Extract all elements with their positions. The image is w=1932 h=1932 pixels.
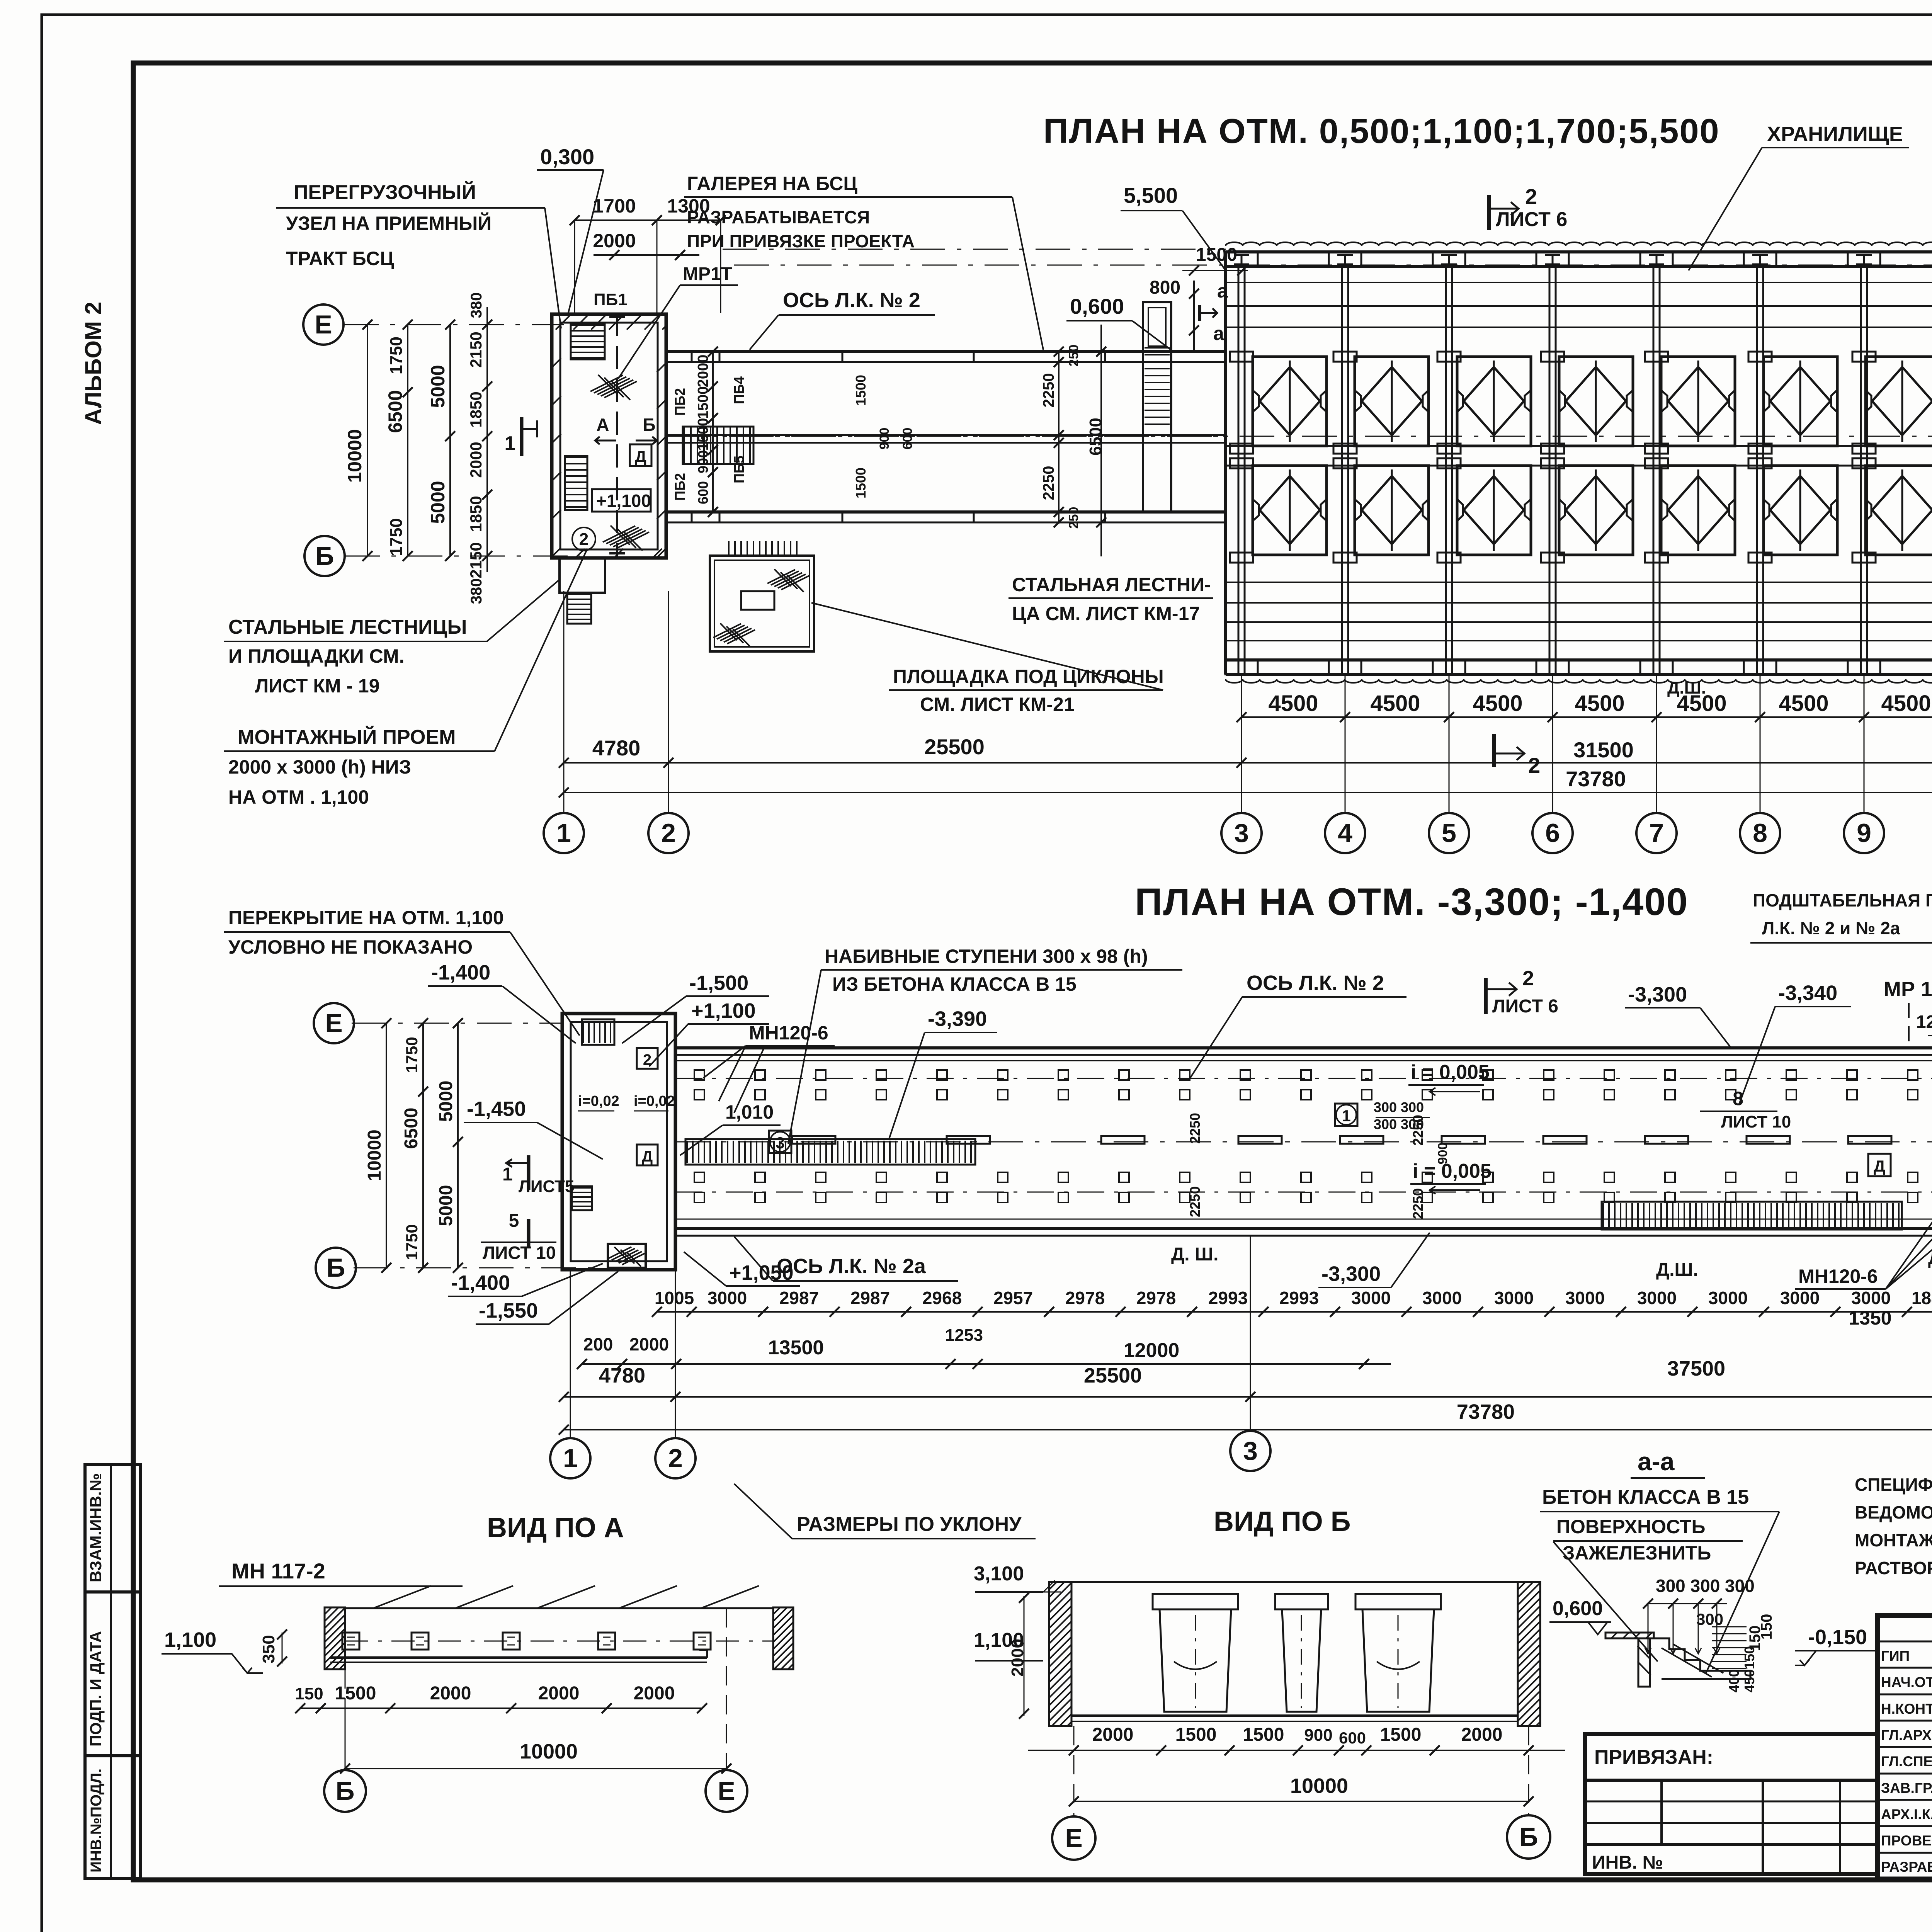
lower plan bubbles bottom [570, 1268, 571, 1437]
storage bay cell r1c7 with hopper [1866, 357, 1932, 446]
svg-text:а: а [1217, 280, 1228, 302]
svg-text:7: 7 [1649, 818, 1664, 848]
bay number box 1 [1335, 1104, 1357, 1126]
column 8 mid squares [1748, 444, 1772, 454]
column axis 7 vertical [1653, 267, 1655, 674]
gallery stair strip left [685, 1139, 975, 1165]
svg-text:-1,400: -1,400 [451, 1271, 510, 1294]
svg-text:0,300: 0,300 [540, 145, 594, 169]
svg-text:800: 800 [1150, 277, 1180, 298]
svg-text:ПЕРЕГРУЗОЧНЫЙ: ПЕРЕГРУЗОЧНЫЙ [294, 181, 476, 204]
transfer block label D box [630, 444, 651, 466]
gallery center axis [675, 1141, 1932, 1143]
svg-text:НАБИВНЫЕ СТУПЕНИ 300 х 98 (h: НАБИВНЫЕ СТУПЕНИ 300 х 98 (h) [825, 946, 1148, 967]
lower-plan left block stair [582, 1019, 614, 1045]
svg-text:а-а: а-а [1638, 1447, 1675, 1476]
svg-text:РАЗРАБАТЫВАЕТСЯ: РАЗРАБАТЫВАЕТСЯ [687, 207, 870, 227]
storage hall top wall column plates [1225, 252, 1258, 267]
svg-text:3,100: 3,100 [974, 1563, 1024, 1585]
column axis 5 vertical [1445, 267, 1447, 674]
svg-text:2957: 2957 [993, 1288, 1033, 1308]
svg-text:Д: Д [642, 1148, 653, 1165]
svg-text:-1,400: -1,400 [431, 961, 490, 984]
view A left wall [325, 1607, 345, 1669]
svg-text:СТАЛЬНАЯ ЛЕСТНИ-: СТАЛЬНАЯ ЛЕСТНИ- [1012, 574, 1211, 595]
column 3 mid squares [1230, 444, 1253, 454]
view B bubbles [1073, 1726, 1075, 1816]
left vertical dim chain lines [367, 325, 368, 556]
svg-text:ХРАНИЛИЩЕ: ХРАНИЛИЩЕ [1767, 122, 1903, 146]
grid bubbles extension lines [563, 591, 565, 813]
svg-text:5,500: 5,500 [1124, 183, 1178, 207]
axis row Б line [345, 556, 580, 557]
svg-text:-3,300: -3,300 [1321, 1262, 1381, 1286]
lower dim row 3000 series [657, 1311, 1932, 1313]
section a-a small dims [1712, 1626, 1747, 1628]
svg-text:2993: 2993 [1279, 1288, 1319, 1308]
svg-text:2000: 2000 [538, 1683, 580, 1704]
svg-text:350: 350 [259, 1635, 278, 1663]
grid bubble 7 [1636, 813, 1677, 853]
bay number box 3 left [769, 1131, 791, 1153]
gallery upper column squares row A [694, 1070, 704, 1080]
svg-text:НА ОТМ . 1,100: НА ОТМ . 1,100 [228, 786, 369, 808]
svg-text:i = 0,005: i = 0,005 [1413, 1160, 1492, 1182]
transfer block hatch marks [590, 375, 623, 391]
svg-text:А: А [596, 415, 609, 435]
svg-text:5000: 5000 [436, 1185, 456, 1226]
storage bay cell r2c4 with hopper [1559, 466, 1633, 555]
svg-text:ПБ4: ПБ4 [731, 376, 747, 404]
svg-text:400: 400 [1726, 1669, 1742, 1692]
transfer block MR1T axis [616, 313, 618, 556]
row bubble Е top-plan [303, 304, 344, 345]
svg-text:Б: Б [336, 1776, 355, 1806]
view B hoppers [1153, 1594, 1238, 1609]
title block left rows [1878, 1641, 1932, 1643]
svg-text:2000: 2000 [634, 1683, 675, 1704]
storage bay cell r1c6 with hopper [1764, 357, 1837, 446]
svg-text:2150: 2150 [467, 332, 485, 367]
svg-text:ЛИСТ 6: ЛИСТ 6 [1492, 996, 1558, 1017]
svg-text:2250: 2250 [1040, 373, 1057, 408]
column axis 8 vertical [1756, 267, 1758, 674]
svg-text:2987: 2987 [779, 1288, 819, 1308]
svg-text:Л.К. № 2 и № 2а: Л.К. № 2 и № 2а [1762, 918, 1900, 938]
gallery lower column squares [694, 1172, 704, 1182]
axis row Ж dash-dot line [734, 265, 1932, 266]
svg-text:i=0,02: i=0,02 [578, 1093, 619, 1109]
label list5 mark [527, 1155, 531, 1190]
title block outer [1878, 1616, 1932, 1879]
svg-text:СТАЛЬНЫЕ ЛЕСТНИЦЫ: СТАЛЬНЫЕ ЛЕСТНИЦЫ [228, 616, 467, 638]
svg-text:31500: 31500 [1573, 738, 1634, 762]
svg-text:Б: Б [327, 1253, 345, 1282]
svg-text:ПЕРЕКРЫТИЕ НА ОТМ. 1,100: ПЕРЕКРЫТИЕ НА ОТМ. 1,100 [228, 907, 504, 929]
storage bay cell r2c3 with hopper [1457, 466, 1531, 555]
corridor width dim chain [712, 352, 714, 512]
stamp box VZAM.INV.N [85, 1464, 141, 1592]
svg-text:380: 380 [468, 578, 485, 604]
axis row Г line [676, 436, 1932, 437]
view A bubbles [345, 1708, 346, 1770]
corridor мid columns ticks [691, 352, 693, 362]
svg-text:25500: 25500 [1084, 1364, 1142, 1387]
view A dim 10000 [345, 1768, 726, 1769]
storage hall left wall [1224, 252, 1227, 674]
lower-plan left block outer [562, 1014, 675, 1270]
gallery bottom wall [675, 1227, 1932, 1230]
transfer block stairs top [571, 324, 605, 359]
lower dim row 73780 [564, 1429, 1932, 1430]
svg-text:2: 2 [668, 1444, 683, 1473]
svg-text:6: 6 [1545, 818, 1560, 848]
svg-text:0,600: 0,600 [1553, 1597, 1603, 1620]
transfer block wall hatch [556, 315, 570, 330]
svg-text:Б: Б [315, 541, 334, 571]
axis row Б lower line [354, 1267, 603, 1269]
svg-text:ВИД ПО А: ВИД ПО А [487, 1512, 624, 1543]
corridor top wall [666, 350, 1226, 353]
gallery inner lines top [675, 1060, 1932, 1061]
transfer block annex stair [567, 593, 591, 624]
svg-text:-3,390: -3,390 [928, 1007, 987, 1031]
svg-text:Д.Ш.: Д.Ш. [1656, 1260, 1698, 1280]
svg-text:+1,100: +1,100 [691, 999, 756, 1022]
storage hall top wall [1226, 250, 1932, 253]
svg-text:25500: 25500 [924, 735, 985, 759]
svg-text:И ПЛОЩАДКИ СМ.: И ПЛОЩАДКИ СМ. [228, 645, 405, 667]
storage bay cell r2c1 with hopper [1253, 466, 1327, 555]
svg-text:600: 600 [1339, 1729, 1366, 1747]
svg-text:3000: 3000 [707, 1288, 747, 1308]
section a-a callout triangle [1706, 1512, 1779, 1673]
column axis 9 vertical [1860, 267, 1862, 674]
svg-text:5: 5 [509, 1211, 519, 1231]
svg-text:2250: 2250 [1410, 1115, 1426, 1146]
svg-text:ВЗАМ.ИНВ.№: ВЗАМ.ИНВ.№ [87, 1473, 105, 1582]
svg-text:Д.Ш: Д.Ш [1928, 1248, 1932, 1268]
svg-text:8: 8 [1753, 818, 1767, 848]
svg-text:Н.КОНТР.: Н.КОНТР. [1881, 1701, 1932, 1717]
column axis 4 vertical [1341, 267, 1343, 674]
svg-text:3000: 3000 [1422, 1288, 1462, 1308]
gallery upper axis [675, 1078, 1932, 1079]
svg-text:ИНВ. №: ИНВ. № [1592, 1852, 1663, 1873]
svg-text:5000: 5000 [436, 1081, 456, 1122]
svg-text:4500: 4500 [1779, 691, 1828, 716]
lower dim row 3: 4780 25500 37500 [564, 1396, 1932, 1398]
svg-text:2000: 2000 [1461, 1725, 1503, 1745]
svg-text:73780: 73780 [1457, 1400, 1515, 1423]
cyclone platform left inner box [741, 591, 774, 610]
svg-text:4500: 4500 [1881, 691, 1931, 716]
svg-text:6500: 6500 [384, 390, 406, 433]
svg-text:4: 4 [1338, 818, 1352, 848]
axis row Е lower line [352, 1023, 562, 1024]
gallery left slots [792, 1136, 835, 1144]
svg-text:0,600: 0,600 [1070, 294, 1124, 318]
svg-text:2000: 2000 [1092, 1725, 1134, 1745]
svg-text:ГЛ.СПЕЦ.: ГЛ.СПЕЦ. [1881, 1753, 1932, 1769]
gallery inner lines bottom [675, 1219, 1932, 1220]
svg-text:10000: 10000 [364, 1129, 385, 1181]
svg-text:5000: 5000 [427, 365, 449, 408]
svg-text:Е: Е [718, 1776, 735, 1806]
corridor axis line [666, 436, 1226, 437]
svg-text:РАЗРАБ.: РАЗРАБ. [1881, 1859, 1932, 1875]
svg-text:2000: 2000 [467, 442, 485, 478]
svg-text:2250: 2250 [1187, 1113, 1203, 1144]
svg-text:-1,450: -1,450 [467, 1097, 526, 1121]
svg-text:1500: 1500 [1196, 245, 1237, 265]
lower-plan left block hatch box [608, 1244, 646, 1268]
svg-text:ПОДШТАБЕЛЬНАЯ ГАЛЕРЕЯ-: ПОДШТАБЕЛЬНАЯ ГАЛЕРЕЯ- [1753, 890, 1932, 910]
svg-text:2: 2 [1528, 753, 1540, 777]
top plan left guide lines [723, 249, 1226, 250]
svg-text:10000: 10000 [520, 1740, 578, 1763]
svg-text:ПЛАН НА ОТМ. -3,300; -1,400: ПЛАН НА ОТМ. -3,300; -1,400 [1135, 880, 1688, 923]
svg-text:3000: 3000 [1780, 1288, 1820, 1308]
grid bubble 1 [544, 813, 584, 853]
svg-text:МОНТАЖНЫЙ ПРОЕМ ЗАЛОЖИТЬ КИРП: МОНТАЖНЫЙ ПРОЕМ ЗАЛОЖИТЬ КИРПИЧОМ МАРКИ … [1855, 1530, 1932, 1550]
svg-text:2968: 2968 [922, 1288, 962, 1308]
section mark 2 list6 lower [1484, 978, 1488, 1014]
svg-text:900: 900 [695, 450, 711, 473]
column 4 mid squares [1333, 444, 1357, 454]
column 9 mid squares [1852, 444, 1876, 454]
svg-text:1750: 1750 [403, 1224, 421, 1260]
svg-text:900: 900 [1304, 1726, 1332, 1745]
svg-text:ГАЛЕРЕЯ НА БСЦ: ГАЛЕРЕЯ НА БСЦ [687, 173, 857, 194]
lower-plan left block boxes [637, 1048, 658, 1069]
svg-text:1500: 1500 [695, 418, 711, 451]
svg-text:3000: 3000 [1637, 1288, 1677, 1308]
svg-text:1: 1 [563, 1444, 578, 1473]
svg-text:-0,150: -0,150 [1808, 1626, 1867, 1649]
corridor inner lines [666, 434, 1226, 436]
storage bay cell r2c6 with hopper [1764, 466, 1837, 555]
svg-text:2000: 2000 [629, 1334, 669, 1354]
svg-text:2250: 2250 [1187, 1186, 1203, 1217]
svg-text:2987: 2987 [850, 1288, 890, 1308]
svg-text:Б: Б [643, 415, 655, 435]
svg-text:125 125: 125 125 [1916, 1012, 1932, 1032]
svg-text:-3,300: -3,300 [1628, 983, 1687, 1006]
svg-text:МР1Т: МР1Т [683, 264, 732, 284]
svg-text:1,100: 1,100 [164, 1628, 216, 1651]
svg-text:3000: 3000 [1351, 1288, 1391, 1308]
cyclone platform left hatches [767, 570, 795, 583]
svg-text:2993: 2993 [1208, 1288, 1248, 1308]
svg-text:5000: 5000 [427, 481, 449, 524]
dimension row 4780 25500 31500 6000 6000 [564, 762, 1932, 764]
svg-text:СМ. ЛИСТ КМ-21: СМ. ЛИСТ КМ-21 [920, 694, 1075, 715]
lower dim row 2: 200 2000 13500 1253 12000 [582, 1363, 1391, 1365]
svg-text:Е: Е [1065, 1823, 1082, 1853]
svg-text:1500: 1500 [853, 375, 869, 406]
svg-text:1,010: 1,010 [725, 1101, 774, 1123]
transfer block outer walls [552, 314, 666, 558]
svg-text:2: 2 [579, 530, 588, 549]
transfer block stairs left [565, 456, 587, 510]
svg-text:1700: 1700 [593, 195, 636, 217]
dim 1700 1300 [575, 219, 721, 221]
svg-text:ПРИВЯЗАН:: ПРИВЯЗАН: [1594, 1746, 1713, 1769]
svg-text:+1,100: +1,100 [596, 491, 651, 511]
storage hall bottom wall column plates [1225, 660, 1258, 674]
svg-text:2150: 2150 [467, 542, 485, 578]
section mark 2 bottom [1492, 734, 1496, 767]
svg-text:12000: 12000 [1124, 1339, 1180, 1362]
stamp box PODP.I.DATA [85, 1592, 141, 1756]
svg-text:1500: 1500 [1380, 1725, 1422, 1745]
svg-text:ЗАЖЕЛЕЗНИТЬ: ЗАЖЕЛЕЗНИТЬ [1563, 1542, 1711, 1564]
svg-text:1500: 1500 [853, 468, 869, 498]
bay letter box D [1868, 1154, 1891, 1176]
svg-text:300: 300 [1696, 1610, 1723, 1628]
svg-text:ИЗ БЕТОНА КЛАССА В 15: ИЗ БЕТОНА КЛАССА В 15 [832, 973, 1077, 995]
svg-text:ГЛ.АРХ.: ГЛ.АРХ. [1881, 1727, 1932, 1743]
svg-text:13500: 13500 [768, 1337, 824, 1359]
svg-text:МР 1Т: МР 1Т [1884, 978, 1932, 1001]
svg-text:2: 2 [1522, 967, 1534, 990]
svg-text:ЛИСТ КМ - 19: ЛИСТ КМ - 19 [255, 675, 380, 697]
svg-text:ЛИСТ5: ЛИСТ5 [519, 1177, 575, 1196]
column axis 3 vertical [1238, 267, 1240, 674]
view A dim row [300, 1708, 702, 1709]
svg-text:ЗАВ.ГР.: ЗАВ.ГР. [1881, 1780, 1932, 1796]
svg-text:4500: 4500 [1575, 691, 1624, 716]
storage hall corrugated bottom edge [1226, 679, 1932, 683]
svg-text:1253: 1253 [945, 1326, 983, 1345]
svg-text:600: 600 [695, 481, 711, 504]
svg-text:i = 0,005: i = 0,005 [1411, 1061, 1490, 1083]
storage hall corrugated top edge [1226, 242, 1932, 246]
svg-text:5: 5 [1442, 818, 1456, 848]
grid bubble 6 [1532, 813, 1573, 853]
corridor bottom wall [666, 510, 1226, 514]
view A roof hatch [373, 1586, 431, 1608]
svg-text:9: 9 [1857, 818, 1871, 848]
svg-text:150: 150 [295, 1684, 323, 1703]
svg-text:3000: 3000 [1708, 1288, 1748, 1308]
dimension row 4500 x7 [1242, 716, 1932, 718]
svg-text:РАСТВОРЕ МАРКИ 10 ПОСЛЕ МОНТА: РАСТВОРЕ МАРКИ 10 ПОСЛЕ МОНТАЖА ОБОРУДОВ… [1855, 1558, 1932, 1578]
svg-text:2: 2 [1525, 184, 1537, 209]
svg-text:УСЛОВНО НЕ ПОКАЗАНО: УСЛОВНО НЕ ПОКАЗАНО [228, 936, 473, 958]
svg-text:3000: 3000 [1851, 1288, 1891, 1308]
svg-text:ОСЬ Л.К. № 2а: ОСЬ Л.К. № 2а [777, 1255, 926, 1278]
svg-text:1500: 1500 [695, 386, 711, 419]
row bubble Б top-plan [304, 536, 345, 576]
svg-text:ВЕДОМОСТИ ПРОЕМОВ ДВЕРЕЙ, ПЕРЕ: ВЕДОМОСТИ ПРОЕМОВ ДВЕРЕЙ, ПЕРЕМЫЧЕК СМ. … [1855, 1502, 1932, 1522]
transfer block node bubble 2 [572, 527, 595, 551]
svg-text:2000: 2000 [430, 1683, 471, 1704]
svg-text:ПОДП. И ДАТА: ПОДП. И ДАТА [87, 1631, 105, 1747]
column axis 6 vertical [1549, 267, 1551, 674]
svg-text:380: 380 [468, 293, 485, 318]
svg-text:ОСЬ Л.К. № 2: ОСЬ Л.К. № 2 [1247, 971, 1384, 995]
gallery center slots [1238, 1136, 1282, 1144]
svg-text:ЛИСТ 6: ЛИСТ 6 [1496, 208, 1567, 231]
grid bubble 2 [648, 813, 689, 853]
section mark 1 left [520, 417, 524, 456]
svg-text:ПБ1: ПБ1 [594, 290, 628, 309]
hall gallery width dims [1058, 350, 1060, 524]
svg-text:-1,550: -1,550 [479, 1299, 538, 1322]
svg-text:ПЛАН НА ОТМ. 0,500;1,100;1,: ПЛАН НА ОТМ. 0,500;1,100;1,700;5,500 [1043, 112, 1720, 151]
svg-text:ПОВЕРХНОСТЬ: ПОВЕРХНОСТЬ [1556, 1516, 1705, 1537]
svg-text:900: 900 [877, 428, 892, 450]
svg-text:4780: 4780 [592, 736, 641, 760]
svg-text:2: 2 [661, 818, 676, 848]
svg-text:ЦА СМ. ЛИСТ КМ-17: ЦА СМ. ЛИСТ КМ-17 [1012, 603, 1200, 624]
storage bay cell r1c2 with hopper [1355, 357, 1429, 446]
section mark 2 list 6 top [1487, 195, 1491, 230]
svg-text:2250: 2250 [1410, 1188, 1426, 1219]
svg-text:Д: Д [635, 447, 646, 466]
svg-text:БЕТОН КЛАССА В 15: БЕТОН КЛАССА В 15 [1542, 1486, 1749, 1509]
svg-text:ТРАКТ БСЦ: ТРАКТ БСЦ [286, 248, 394, 269]
storage bay cell r2c5 with hopper [1661, 466, 1735, 555]
view B dim row [1073, 1528, 1074, 1529]
svg-text:250: 250 [1066, 345, 1081, 367]
view A right wall [773, 1607, 793, 1669]
svg-text:1850: 1850 [467, 496, 485, 532]
svg-text:2250: 2250 [1040, 466, 1057, 500]
svg-text:ПЛОЩАДКА ПОД ЦИКЛОНЫ: ПЛОЩАДКА ПОД ЦИКЛОНЫ [893, 666, 1164, 687]
transfer block level label [592, 489, 651, 512]
svg-text:2978: 2978 [1136, 1288, 1176, 1308]
top conveyor gallery lines [1226, 282, 1932, 283]
svg-text:ЛИСТ 10: ЛИСТ 10 [1721, 1112, 1791, 1131]
svg-text:НАЧ.ОТД.: НАЧ.ОТД. [1881, 1674, 1932, 1690]
svg-text:1500: 1500 [335, 1683, 376, 1704]
svg-text:-1,500: -1,500 [689, 971, 748, 995]
storage bay cell r1c3 with hopper [1457, 357, 1531, 446]
svg-text:150: 150 [1758, 1614, 1775, 1640]
lower-plan left dim chain [386, 1023, 387, 1268]
svg-text:3000: 3000 [1565, 1288, 1605, 1308]
svg-text:МН120-6: МН120-6 [1798, 1265, 1878, 1287]
svg-text:1500: 1500 [1175, 1725, 1217, 1745]
svg-text:МОНТАЖНЫЙ ПРОЕМ: МОНТАЖНЫЙ ПРОЕМ [238, 726, 456, 748]
svg-text:1750: 1750 [387, 337, 406, 374]
svg-text:1: 1 [502, 1164, 513, 1185]
grid bubble 3 [1221, 813, 1262, 853]
column 7 mid squares [1645, 444, 1668, 454]
svg-text:Е: Е [325, 1009, 342, 1038]
svg-text:1: 1 [1342, 1107, 1350, 1125]
svg-text:200: 200 [583, 1334, 613, 1354]
svg-text:450150: 450150 [1742, 1646, 1757, 1692]
svg-text:4780: 4780 [599, 1364, 645, 1387]
svg-text:-3,340: -3,340 [1778, 981, 1837, 1005]
svg-text:3: 3 [1243, 1436, 1258, 1466]
lower-plan left bubbles [314, 1003, 354, 1043]
dimension row 73780 [564, 792, 1932, 793]
section a-a stair steps [1605, 1633, 1654, 1638]
svg-text:Д: Д [1874, 1157, 1885, 1175]
grid bubble 5 [1429, 813, 1469, 853]
svg-text:4500: 4500 [1268, 691, 1318, 716]
gallery stair strip right [1602, 1202, 1902, 1230]
view B right wall [1518, 1582, 1540, 1726]
label list10 mark [527, 1219, 531, 1248]
svg-text:ПБ5: ПБ5 [731, 456, 747, 483]
svg-text:Д. Ш.: Д. Ш. [1171, 1244, 1218, 1265]
